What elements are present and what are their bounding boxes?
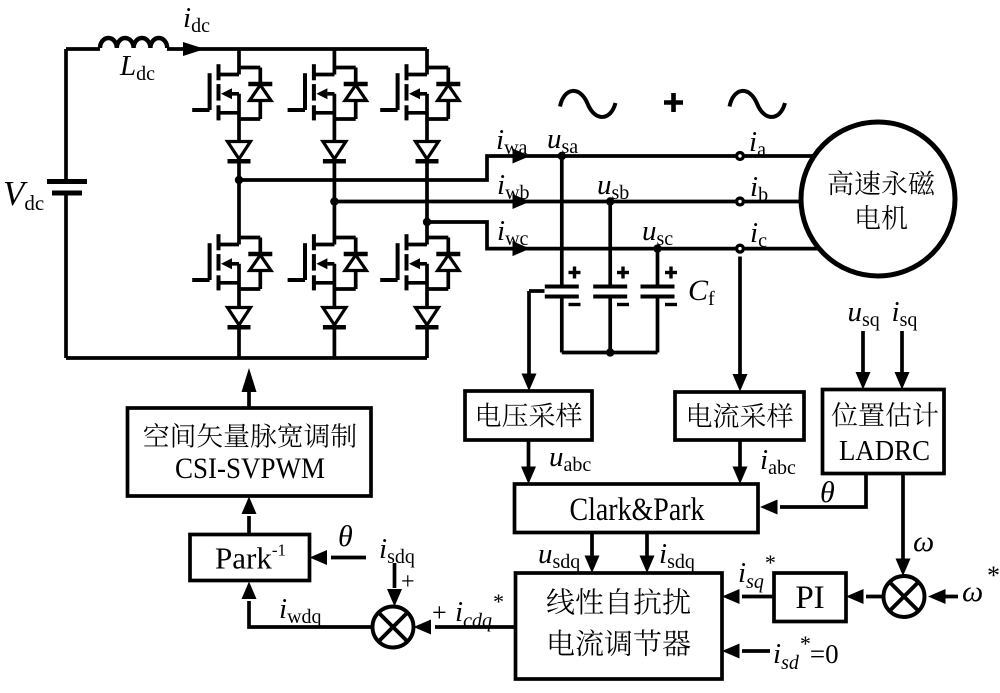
svg-text:ω: ω (962, 575, 983, 608)
svg-text:θ: θ (820, 476, 835, 509)
svg-text:+: + (401, 569, 415, 595)
svg-text:ω: ω (913, 525, 934, 558)
svg-text:θ: θ (338, 520, 353, 553)
svg-text:*: * (987, 561, 1000, 590)
svg-text:LADRC: LADRC (839, 435, 930, 467)
svg-text:Clark&Park: Clark&Park (570, 492, 705, 528)
svg-text:+: + (432, 598, 447, 627)
svg-text:PI: PI (795, 580, 824, 616)
svg-text:CSI-SVPWM: CSI-SVPWM (175, 452, 325, 485)
